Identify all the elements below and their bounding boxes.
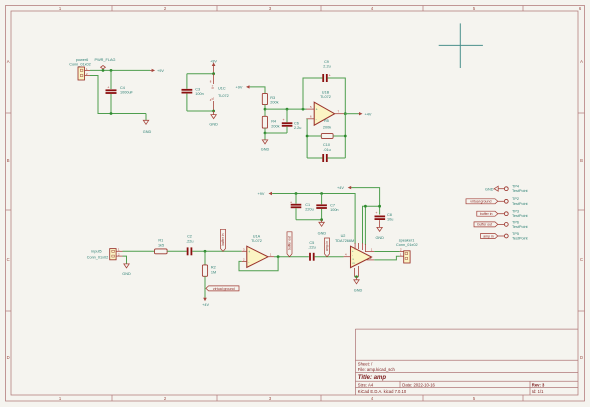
- svg-text:100n: 100n: [330, 208, 338, 212]
- capacitor C1 220u: [290, 194, 314, 220]
- junction U2 gnd: [355, 275, 358, 278]
- power +9V arrow left rail: [258, 192, 273, 196]
- junction U1A out: [277, 255, 280, 258]
- svg-text:Rev: 3: Rev: 3: [532, 382, 545, 387]
- wire R4 bottom: [264, 128, 266, 133]
- svg-text:2.2u: 2.2u: [323, 65, 330, 69]
- wire out to +4V: [345, 113, 359, 115]
- svg-text:Date: 2022-10-16: Date: 2022-10-16: [402, 382, 435, 387]
- wire +4V to U2 stby/mute: [363, 206, 380, 243]
- svg-text:GND: GND: [354, 289, 363, 293]
- svg-text:GND: GND: [261, 148, 270, 152]
- svg-text:C5: C5: [309, 241, 314, 245]
- ground C1/C7: [318, 220, 327, 236]
- wire C10 row: [307, 157, 322, 159]
- svg-text:200k: 200k: [271, 125, 279, 129]
- svg-text:C: C: [580, 257, 583, 262]
- junction C7: [320, 192, 323, 195]
- svg-text:+9V: +9V: [236, 86, 243, 90]
- resistor R1 1k5: [155, 238, 168, 253]
- op-amp U1C power unit TL072 pins 8/4: [210, 74, 229, 111]
- svg-text:R1: R1: [158, 238, 163, 242]
- svg-text:A: A: [580, 59, 583, 64]
- global label buffer out: [287, 232, 292, 257]
- global label buffer out TP4: [474, 222, 504, 227]
- power +4V arrow right: [359, 112, 372, 116]
- svg-text:amp in: amp in: [325, 241, 329, 251]
- svg-text:buffer in: buffer in: [221, 233, 225, 245]
- wire input to R1: [123, 250, 155, 252]
- svg-text:R4: R4: [271, 120, 276, 124]
- svg-text:2.2u: 2.2u: [294, 126, 301, 130]
- junction C1: [295, 192, 298, 195]
- wire +9V to R3: [250, 87, 265, 94]
- svg-text:TP4: TP4: [512, 185, 519, 189]
- power +9V arrow up: [210, 60, 217, 74]
- wire C6 bottom: [265, 132, 287, 134]
- capacitor C5 .22u: [308, 241, 315, 261]
- svg-text:TL072: TL072: [320, 95, 331, 99]
- wire U2 out2 to speaker: [374, 256, 400, 260]
- svg-text:Size: A4: Size: A4: [358, 382, 374, 387]
- wire R2 to virtual ground: [204, 276, 206, 297]
- svg-text:TP6: TP6: [512, 220, 519, 224]
- wire input pin2 to gnd: [123, 256, 127, 264]
- testpoint TP4: [504, 185, 528, 194]
- svg-text:D: D: [7, 355, 10, 360]
- svg-text:+4V: +4V: [337, 186, 344, 190]
- svg-text:GND: GND: [143, 130, 152, 134]
- svg-text:C8: C8: [387, 213, 392, 217]
- svg-text:.22u: .22u: [308, 245, 315, 249]
- capacitor C10 .01u: [323, 143, 331, 162]
- svg-text:virtual ground: virtual ground: [213, 287, 235, 291]
- svg-text:TP5: TP5: [512, 232, 519, 236]
- svg-text:GND: GND: [209, 123, 218, 127]
- global label buffer in: [221, 229, 226, 251]
- svg-text:+9V: +9V: [157, 69, 164, 73]
- svg-text:+: +: [107, 85, 109, 89]
- svg-text:power6: power6: [76, 58, 88, 62]
- svg-text:C1: C1: [305, 203, 310, 207]
- junction C4 bottom: [110, 112, 113, 115]
- crosshair graphic: [439, 23, 483, 68]
- svg-text:-: -: [248, 260, 249, 264]
- svg-text:-: -: [316, 117, 317, 121]
- feedback verticals: [306, 119, 308, 158]
- wire +9V rail to U2: [272, 194, 355, 245]
- svg-text:-: -: [352, 254, 353, 257]
- svg-text:+: +: [329, 74, 331, 78]
- svg-text:U2: U2: [341, 234, 346, 238]
- svg-text:+4V: +4V: [365, 112, 372, 116]
- power +4V arrow down: [202, 298, 209, 307]
- testpoint TP3: [504, 210, 528, 219]
- svg-text:PWR_FLAG: PWR_FLAG: [95, 58, 116, 62]
- svg-text:C: C: [7, 257, 10, 262]
- svg-text:200k: 200k: [270, 101, 278, 105]
- capacitor C2 .22u: [186, 235, 193, 256]
- resistor R3 200k: [262, 93, 278, 104]
- svg-text:.22u: .22u: [186, 240, 193, 244]
- wire U2 out1 to speaker: [374, 251, 400, 253]
- testpoint TP6: [504, 220, 528, 229]
- svg-text:+4V: +4V: [202, 303, 209, 307]
- connector J speaker1 Conn_01x02: [396, 239, 418, 264]
- wire C1/C7 gnd rail: [296, 219, 322, 221]
- svg-text:U1B: U1B: [322, 91, 330, 95]
- power GND testpoint row: [485, 186, 504, 191]
- svg-text:C2: C2: [187, 235, 192, 239]
- wire C9 loop: [303, 78, 323, 109]
- svg-text:C4: C4: [120, 86, 125, 90]
- svg-text:input5: input5: [91, 249, 101, 253]
- wire U1A feedback: [239, 257, 278, 271]
- svg-text:TestPoint: TestPoint: [512, 202, 529, 206]
- testpoint TP5: [504, 232, 528, 241]
- wire divider to opamp: [265, 108, 307, 110]
- svg-text:TestPoint: TestPoint: [512, 225, 529, 229]
- capacitor C9 2.2u: [323, 60, 331, 82]
- power +4V arrow left rail: [337, 186, 352, 190]
- wire top rail C3/U1C: [187, 73, 214, 75]
- power +9V arrow left: [236, 85, 251, 89]
- wire R5 feedback row: [307, 135, 321, 137]
- svg-text:amp in: amp in: [483, 234, 494, 238]
- svg-text:R2: R2: [211, 266, 216, 270]
- global label amp in TP5: [481, 234, 505, 239]
- junction PWR_FLAG: [102, 69, 105, 72]
- wire C5 to U2: [315, 256, 344, 258]
- svg-text:220u: 220u: [305, 208, 313, 212]
- svg-text:buffer out: buffer out: [477, 223, 492, 227]
- svg-text:C9: C9: [324, 60, 329, 64]
- capacitor C6 2.2u: [282, 109, 302, 133]
- wire U2 gnd pins: [355, 276, 359, 278]
- svg-text:C10: C10: [323, 143, 330, 147]
- wire mute vertical: [364, 206, 366, 245]
- junction C7 gnd: [320, 218, 323, 221]
- wire R1 to C2: [167, 250, 187, 252]
- connector J input5 Conn_01x02: [87, 248, 123, 260]
- svg-text:D: D: [580, 355, 583, 360]
- svg-text:GND: GND: [485, 187, 494, 191]
- svg-text:V-: V-: [211, 97, 215, 100]
- svg-text:TestPoint: TestPoint: [512, 189, 529, 193]
- svg-text:buffer in: buffer in: [480, 212, 493, 216]
- svg-text:R3: R3: [270, 96, 275, 100]
- svg-text:10u: 10u: [387, 217, 393, 221]
- wire R3 to R4: [264, 105, 266, 117]
- svg-text:TestPoint: TestPoint: [512, 237, 529, 241]
- svg-text:m: m: [353, 262, 355, 265]
- ground divider: [261, 133, 270, 152]
- junction C4 top: [110, 69, 113, 72]
- svg-text:+: +: [375, 211, 377, 215]
- capacitor C7 100n: [316, 194, 338, 220]
- junction C9 branch: [302, 108, 305, 111]
- op-amp U1A TL072: [242, 234, 274, 267]
- op-amp U1B TL072: [306, 91, 344, 126]
- testpoint TP2: [504, 197, 528, 206]
- svg-text:File: amp.kicad_sch: File: amp.kicad_sch: [358, 367, 396, 372]
- ground power input: [143, 114, 152, 135]
- wire pin2 down to gnd rail: [90, 76, 146, 114]
- svg-text:1k5: 1k5: [158, 243, 164, 247]
- svg-text:C3: C3: [195, 88, 200, 92]
- svg-text:Id: 1/1: Id: 1/1: [532, 389, 544, 394]
- ground C8: [375, 227, 384, 240]
- junction C6 top: [286, 108, 289, 111]
- svg-text:1000uF: 1000uF: [120, 91, 134, 95]
- connector J power6 Conn_01x02: [69, 58, 91, 80]
- resistor R4 200k: [262, 116, 279, 128]
- svg-text:B: B: [580, 158, 583, 163]
- global label amp in: [325, 238, 330, 257]
- capacitor C8 10u: [375, 211, 394, 227]
- svg-text:GND: GND: [122, 272, 131, 276]
- svg-text:buffer out: buffer out: [288, 236, 292, 250]
- svg-text:V+: V+: [211, 85, 215, 89]
- svg-text:100n: 100n: [195, 92, 203, 96]
- power +9V arrow right: [150, 69, 164, 73]
- wire +4V rail to C8: [352, 188, 380, 215]
- svg-text:Title: amp: Title: amp: [358, 375, 387, 381]
- junction U1C V+: [212, 72, 215, 75]
- svg-text:Conn_01x02: Conn_01x02: [87, 255, 109, 259]
- svg-text:TestPoint: TestPoint: [512, 214, 529, 218]
- resistor R2 1M: [202, 251, 216, 276]
- svg-text:C6: C6: [294, 122, 299, 126]
- svg-text:TDA7266M: TDA7266M: [335, 239, 354, 243]
- junction C8 top: [378, 205, 381, 208]
- svg-text:virtual ground: virtual ground: [470, 200, 491, 204]
- svg-text:+9V: +9V: [258, 192, 265, 196]
- amplifier U2 TDA7266M: [335, 234, 374, 277]
- junction R4 bottom: [264, 132, 267, 135]
- ground U2: [354, 277, 363, 293]
- global label buffer in TP3: [477, 211, 505, 216]
- junction R5 left: [306, 135, 309, 138]
- svg-text:Sheet: /: Sheet: /: [358, 361, 373, 366]
- wire pin1 to +9V: [90, 69, 150, 71]
- svg-text:U1A: U1A: [253, 234, 261, 238]
- svg-text:speaker1: speaker1: [399, 239, 415, 243]
- junction mute: [364, 205, 367, 208]
- svg-text:TP3: TP3: [512, 210, 519, 214]
- capacitor C4 1000uF: [106, 70, 134, 113]
- svg-text:TL072: TL072: [218, 94, 229, 98]
- wire C2 to U1A: [192, 250, 241, 252]
- resistor R5 200k feedback: [321, 119, 333, 138]
- TITLE BLOCK: [355, 329, 578, 395]
- svg-text:TP2: TP2: [512, 197, 519, 201]
- junction divider mid: [264, 108, 267, 111]
- svg-text:200k: 200k: [323, 126, 331, 130]
- capacitor C3 100n: [182, 74, 204, 111]
- svg-text:Conn_01x02: Conn_01x02: [396, 243, 418, 247]
- junction R5 right: [344, 135, 347, 138]
- power flag PWR_FLAG: [95, 58, 116, 70]
- svg-text:A: A: [7, 59, 10, 64]
- junction U1B out: [344, 112, 347, 115]
- junction R2 top: [204, 250, 207, 253]
- ground input: [122, 264, 131, 276]
- svg-text:TL072: TL072: [251, 239, 262, 243]
- global label virtual ground: [206, 286, 239, 291]
- svg-text:1M: 1M: [211, 270, 216, 274]
- svg-text:GND: GND: [375, 236, 384, 240]
- svg-text:B: B: [7, 158, 10, 163]
- svg-text:+: +: [248, 250, 250, 254]
- ground U1C: [209, 111, 218, 127]
- svg-text:+: +: [316, 108, 318, 112]
- svg-text:GND: GND: [318, 232, 327, 236]
- junction U1C V-: [212, 110, 215, 113]
- svg-text:U1C: U1C: [218, 87, 226, 91]
- svg-text:KiCad E.D.A. kicad 7.0.10: KiCad E.D.A. kicad 7.0.10: [358, 389, 407, 394]
- global label virtual ground TP2: [466, 199, 504, 204]
- wire U1A out: [274, 256, 309, 258]
- svg-text:R5: R5: [324, 119, 329, 123]
- svg-text:+: +: [283, 118, 285, 122]
- svg-text:.01u: .01u: [323, 148, 330, 152]
- wire bottom rail C3/U1C: [187, 110, 214, 112]
- svg-text:C7: C7: [330, 204, 335, 208]
